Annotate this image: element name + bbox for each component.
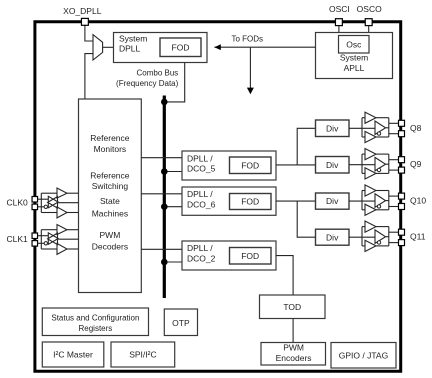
FOD box DCO_5 xyxy=(230,157,272,174)
svg-text:CLK0: CLK0 xyxy=(7,198,29,208)
wire branch down to Div Q11 xyxy=(297,201,315,237)
svg-text:DCO_2: DCO_2 xyxy=(187,253,216,263)
wire monitors to DPLL/DCO_6 xyxy=(141,193,182,195)
divider Div Q11 xyxy=(316,229,350,245)
svg-text:Div: Div xyxy=(326,160,339,170)
I2C master box xyxy=(42,342,104,367)
PWM encoders box xyxy=(261,343,326,366)
GPIO/JTAG box xyxy=(331,343,396,369)
svg-text:PWM: PWM xyxy=(283,343,304,353)
svg-text:Registers: Registers xyxy=(79,324,113,333)
svg-text:Reference: Reference xyxy=(90,133,129,143)
FOD box DCO_2 xyxy=(230,248,272,265)
wire System DPLL to combo bus xyxy=(164,63,184,102)
svg-text:PWM: PWM xyxy=(100,230,121,240)
svg-text:System: System xyxy=(119,34,147,44)
junction dot bus DCO_5 xyxy=(161,168,168,175)
svg-text:DPLL /: DPLL / xyxy=(187,189,213,199)
svg-text:To FODs: To FODs xyxy=(232,35,264,44)
DPLL/DCO_2 box xyxy=(182,241,276,270)
junction dot bus DCO_2 xyxy=(161,259,168,266)
svg-text:Q11: Q11 xyxy=(410,232,426,242)
wire TOD to PWM encoders xyxy=(292,319,294,343)
svg-text:Div: Div xyxy=(326,123,339,133)
wire combo bus to DPLL/DCO_5 xyxy=(164,171,182,173)
FOD box DCO_6 xyxy=(230,194,272,210)
svg-text:SPI/I²C: SPI/I²C xyxy=(129,350,156,360)
svg-text:Reference: Reference xyxy=(90,170,129,180)
arrowhead down xyxy=(247,88,254,95)
wire DCO_2 to TOD xyxy=(276,256,293,295)
svg-text:GPIO / JTAG: GPIO / JTAG xyxy=(339,350,388,360)
combo bus (thick) xyxy=(163,96,166,299)
svg-text:OTP: OTP xyxy=(172,318,190,328)
svg-text:Decoders: Decoders xyxy=(92,241,128,251)
svg-text:Div: Div xyxy=(326,196,339,206)
wire DCO_6 to Div Q10 xyxy=(276,200,316,202)
reference monitors box xyxy=(79,99,142,293)
svg-text:Machines: Machines xyxy=(92,209,128,219)
svg-text:I²C Master: I²C Master xyxy=(53,350,93,360)
wire APLL to FODs xyxy=(214,46,315,48)
svg-text:OSCI: OSCI xyxy=(329,4,350,14)
output buffers Q11 xyxy=(349,221,405,252)
svg-text:Status and Configuration: Status and Configuration xyxy=(51,313,139,322)
Osc box xyxy=(339,36,370,54)
svg-text:Osc: Osc xyxy=(346,39,362,49)
svg-text:FOD: FOD xyxy=(172,42,190,52)
svg-text:DPLL /: DPLL / xyxy=(187,243,213,253)
svg-text:DCO_6: DCO_6 xyxy=(187,199,216,209)
status and configuration registers box xyxy=(42,308,148,336)
svg-text:Combo Bus: Combo Bus xyxy=(137,69,179,78)
svg-text:TOD: TOD xyxy=(283,302,301,312)
svg-text:Switching: Switching xyxy=(92,181,129,191)
svg-text:FOD: FOD xyxy=(241,251,259,261)
wire OSCO to APLL xyxy=(368,26,370,33)
svg-text:(Frequency Data): (Frequency Data) xyxy=(116,79,179,88)
mux xyxy=(93,35,103,60)
DPLL/DCO_5 box xyxy=(182,151,276,180)
SPI/I2C box xyxy=(111,342,175,367)
pin OSCO xyxy=(365,19,372,26)
FOD box inside System DPLL xyxy=(160,38,201,57)
junction dot bus DCO_6 xyxy=(161,203,168,210)
divider Div Q8 xyxy=(316,120,350,137)
svg-text:Div: Div xyxy=(326,232,339,242)
svg-text:APLL: APLL xyxy=(344,63,365,73)
svg-text:Q10: Q10 xyxy=(410,196,426,206)
wire combo bus to DPLL/DCO_6 xyxy=(164,206,182,208)
pin OSCI xyxy=(335,19,342,26)
svg-text:DPLL /: DPLL / xyxy=(187,153,213,163)
svg-text:FOD: FOD xyxy=(241,197,259,207)
pin XO_DPLL xyxy=(81,18,88,25)
System DPLL box U1 xyxy=(114,33,208,63)
wire combo bus to DPLL/DCO_2 xyxy=(164,261,182,263)
TOD box xyxy=(260,295,326,319)
wire mux to System DPLL xyxy=(103,46,114,48)
DPLL/DCO_6 box xyxy=(182,187,276,215)
wire DCO_5 to Div Q9 xyxy=(276,164,316,166)
System APLL box xyxy=(316,33,393,79)
divider Div Q9 xyxy=(316,157,350,174)
wire branch up to Div Q8 xyxy=(297,128,315,165)
svg-text:XO_DPLL: XO_DPLL xyxy=(63,6,102,16)
svg-text:DPLL: DPLL xyxy=(119,44,141,54)
svg-text:Q8: Q8 xyxy=(410,123,422,133)
svg-text:FOD: FOD xyxy=(241,160,259,170)
svg-text:Q9: Q9 xyxy=(410,159,422,169)
output buffers Q8 xyxy=(349,112,405,143)
junction dot combo bus / system dpll xyxy=(161,99,168,106)
divider Div Q10 xyxy=(316,193,350,209)
input buffers CLK1 xyxy=(32,225,78,255)
svg-text:OSCO: OSCO xyxy=(357,4,382,14)
svg-text:Encoders: Encoders xyxy=(276,353,312,363)
svg-text:State: State xyxy=(100,196,120,206)
input buffers CLK0 xyxy=(32,188,78,218)
wire reference monitors to mux lower input xyxy=(85,54,93,99)
wire monitors to DPLL/DCO_5 xyxy=(141,157,182,159)
svg-text:System: System xyxy=(340,53,368,63)
svg-text:CLK1: CLK1 xyxy=(7,234,29,244)
svg-text:DCO_5: DCO_5 xyxy=(187,163,216,173)
svg-text:Monitors: Monitors xyxy=(94,144,127,154)
wire XO_DPLL pin to mux upper input xyxy=(85,25,93,41)
wire to FODs down branch xyxy=(249,47,251,88)
output buffers Q9 xyxy=(349,149,405,180)
wire OSCI to APLL xyxy=(338,26,340,33)
OTP box xyxy=(164,309,197,336)
arrowhead to system dpll fod xyxy=(214,44,220,50)
output buffers Q10 xyxy=(349,185,405,216)
chip outer border xyxy=(35,22,401,372)
wire monitors to DPLL/DCO_2 xyxy=(141,248,182,250)
